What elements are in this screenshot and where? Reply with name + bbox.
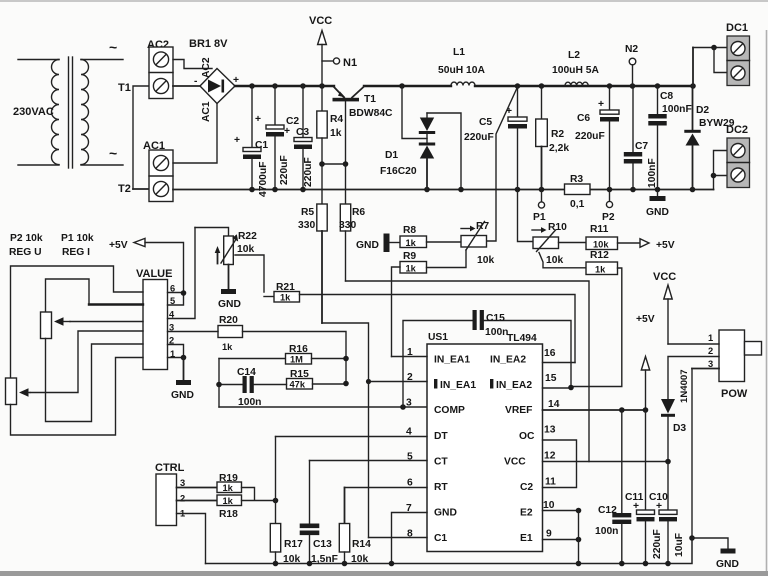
junction dot COMP net <box>400 404 406 410</box>
connector DC1 terminal block <box>727 36 750 86</box>
resistor R9 <box>400 262 427 274</box>
svg-text:C7: C7 <box>635 141 648 152</box>
svg-text:C13: C13 <box>313 539 332 550</box>
pin 7 wire GND <box>392 513 428 564</box>
svg-text:CT: CT <box>434 457 448 468</box>
node N1 <box>322 57 357 69</box>
svg-text:R8: R8 <box>403 225 416 236</box>
svg-text:R15: R15 <box>290 369 309 380</box>
svg-text:VCC: VCC <box>309 15 332 27</box>
svg-text:R10: R10 <box>548 222 567 233</box>
svg-text:C8: C8 <box>660 91 673 102</box>
wire C5 gnd to R10 <box>518 190 534 242</box>
svg-text:AC1: AC1 <box>201 101 212 122</box>
svg-text:10k: 10k <box>351 554 368 565</box>
svg-text:+: + <box>234 135 240 146</box>
svg-text:+5V: +5V <box>656 240 675 251</box>
svg-text:+5V: +5V <box>109 240 128 251</box>
junction dot pin7 rail <box>389 561 395 567</box>
ground symbol bottom right <box>692 538 739 570</box>
svg-text:13: 13 <box>544 425 556 436</box>
svg-text:100nF: 100nF <box>647 158 658 188</box>
junction dot C10 rail <box>665 561 671 567</box>
pin name inv IN_EA1 <box>434 379 476 391</box>
svg-text:1k: 1k <box>223 496 234 506</box>
junction dot POW gnd <box>689 535 695 541</box>
svg-text:IN_EA1: IN_EA1 <box>440 380 476 391</box>
svg-text:220uF: 220uF <box>575 131 605 142</box>
potentiometer P2 lower <box>6 378 31 405</box>
svg-text:GND: GND <box>646 207 669 218</box>
pin 16 wire <box>543 362 576 364</box>
wire R22 wiper to R21 <box>235 255 264 292</box>
pin 2 of CTRL <box>177 494 218 504</box>
svg-text:COMP: COMP <box>434 405 465 416</box>
junction dots on ground rail <box>249 187 695 193</box>
junction dot R14 rail <box>342 561 348 567</box>
wire E1 E2 to ground rail <box>578 511 580 564</box>
power +5V arrow left <box>109 238 184 292</box>
svg-text:3: 3 <box>406 398 412 409</box>
wire R5 to pin2 pin8 chain <box>322 323 369 538</box>
potentiometer R22 <box>195 228 238 265</box>
capacitor C5 <box>508 86 527 190</box>
svg-text:3: 3 <box>180 478 185 488</box>
potentiometer P1 upper <box>41 312 144 339</box>
svg-text:16: 16 <box>544 348 556 359</box>
svg-text:1k: 1k <box>406 264 417 274</box>
svg-text:1: 1 <box>170 349 175 359</box>
wire R8 to R7 <box>427 241 462 243</box>
junction dot VREF +5V <box>643 407 649 413</box>
transformer TR secondary winding <box>81 60 123 166</box>
svg-text:DC1: DC1 <box>726 22 748 34</box>
svg-text:POW: POW <box>721 388 748 400</box>
svg-text:R4: R4 <box>330 114 343 125</box>
svg-text:10k: 10k <box>237 244 254 255</box>
pin name inv IN_EA2 <box>490 379 532 391</box>
wire ground rail bottom <box>206 538 693 564</box>
svg-text:CTRL: CTRL <box>155 462 185 474</box>
connector CTRL body <box>156 474 177 526</box>
pin 6 of VALUE <box>168 284 187 306</box>
capacitor C14 <box>219 376 287 393</box>
svg-text:9: 9 <box>546 529 552 540</box>
ground symbol below VALUE <box>171 358 194 402</box>
wire AC1 upper screw to bridge bottom <box>173 104 217 163</box>
svg-text:1M: 1M <box>290 355 303 365</box>
svg-text:GND: GND <box>218 299 241 310</box>
svg-text:+: + <box>255 114 261 125</box>
svg-text:R18: R18 <box>219 509 238 520</box>
junction dot C12 rail <box>619 561 625 567</box>
svg-text:R7: R7 <box>476 221 489 232</box>
svg-text:100nF: 100nF <box>662 104 692 115</box>
diode D2 <box>684 86 700 190</box>
svg-text:C1: C1 <box>434 533 447 544</box>
wire R6 chain down to VCC wire <box>346 281 590 462</box>
svg-text:3: 3 <box>708 359 713 369</box>
svg-text:R11: R11 <box>590 224 609 235</box>
svg-text:1k: 1k <box>330 128 342 139</box>
svg-text:0,1: 0,1 <box>570 199 585 210</box>
wire value pin6 to pot P2 top <box>11 266 144 378</box>
pin 5 wire CT <box>310 460 428 462</box>
wire switch node to D1 <box>402 86 427 139</box>
wire main DC bus from bridge to T1 <box>235 85 334 87</box>
svg-text:R14: R14 <box>352 539 371 550</box>
svg-text:1N4007: 1N4007 <box>679 369 690 403</box>
svg-text:12: 12 <box>544 451 556 462</box>
connector POW body <box>719 330 762 382</box>
wire base junction <box>322 163 346 165</box>
svg-text:N1: N1 <box>343 57 357 69</box>
wire value pin5 to pot P1 top <box>46 279 144 312</box>
wire T2 to AC1 block <box>133 188 149 190</box>
wire COMP net <box>219 406 427 408</box>
svg-text:1k: 1k <box>223 483 234 493</box>
svg-text:C6: C6 <box>577 113 590 124</box>
svg-text:GND: GND <box>171 390 194 401</box>
svg-text:R20: R20 <box>219 315 238 326</box>
diode D1 dual common cathode <box>419 113 435 190</box>
wire main DC bus from T1 to output corner <box>364 85 693 87</box>
svg-text:P1: P1 <box>533 212 546 223</box>
power +5V arrow right of R11 <box>618 239 675 251</box>
capacitor C2 <box>266 86 284 190</box>
wire AC2 lower screw to bridge left <box>173 85 200 87</box>
svg-text:TL494: TL494 <box>507 333 537 344</box>
junction dot R15 right <box>343 381 349 387</box>
svg-text:R17: R17 <box>284 539 303 550</box>
wire value pin1 to pot P2 bottom <box>11 358 144 436</box>
pin 1 wire <box>392 356 428 358</box>
resistor R14 <box>339 488 349 564</box>
rectifier BR1 bridge <box>200 69 235 104</box>
svg-text:D3: D3 <box>673 423 686 434</box>
pin 14 wire VREF <box>543 409 646 411</box>
ground symbol below R22 <box>218 265 241 311</box>
svg-text:~: ~ <box>109 145 117 161</box>
wire R9 right to R7 wiper <box>427 250 467 268</box>
capacitor C3 <box>294 86 312 190</box>
svg-text:C12: C12 <box>598 505 617 516</box>
pin 4 of VALUE <box>168 228 196 320</box>
junction dot R17 rail <box>273 561 279 567</box>
svg-text:-: - <box>194 76 198 87</box>
resistor R5 <box>317 164 327 323</box>
svg-text:R21: R21 <box>276 282 295 293</box>
junction dot R4 base <box>319 161 325 167</box>
svg-text:RT: RT <box>434 482 448 493</box>
pin 6 wire RT <box>345 487 428 489</box>
svg-text:IN_EA2: IN_EA2 <box>490 355 526 366</box>
svg-text:+: + <box>233 75 239 86</box>
svg-text:E1: E1 <box>520 533 533 544</box>
svg-text:2,2k: 2,2k <box>549 143 569 154</box>
wire R21 to pin16 <box>300 295 576 363</box>
svg-text:AC2: AC2 <box>201 57 212 78</box>
svg-text:1k: 1k <box>595 265 606 275</box>
svg-text:+: + <box>656 501 662 512</box>
resistor R2 <box>536 86 548 190</box>
svg-text:T1: T1 <box>118 82 131 94</box>
svg-text:1k: 1k <box>406 238 417 248</box>
resistor R17 <box>270 437 280 564</box>
wire output plus to DC1 <box>693 45 727 86</box>
pin 4 wire DT <box>276 436 428 438</box>
resistor R4 <box>317 86 327 164</box>
svg-text:330: 330 <box>339 220 356 231</box>
resistor R8 <box>400 236 427 248</box>
svg-text:10k: 10k <box>477 255 494 266</box>
resistor R20 <box>218 326 243 353</box>
pin 1 of POW <box>668 333 719 344</box>
svg-text:L1: L1 <box>453 47 465 58</box>
capacitor C1 <box>243 86 261 190</box>
node P1 <box>533 190 546 224</box>
svg-text:R12: R12 <box>590 250 609 261</box>
svg-text:10k: 10k <box>283 554 300 565</box>
svg-text:1k: 1k <box>280 293 291 303</box>
svg-text:US1: US1 <box>428 332 448 343</box>
resistor R12 <box>539 253 618 275</box>
svg-text:R2: R2 <box>551 129 564 140</box>
resistor R6 <box>340 164 350 281</box>
wire R19 R18 join <box>242 488 276 501</box>
connector AC2 terminal block <box>149 47 173 99</box>
resistor R15 <box>287 379 347 390</box>
svg-text:IN_EA1: IN_EA1 <box>434 355 470 366</box>
junction dot C14 left <box>216 382 222 388</box>
svg-text:330: 330 <box>298 220 315 231</box>
wire D1 top loop <box>427 113 461 190</box>
resistor R3 shunt <box>565 184 591 195</box>
pin 2 wire <box>369 381 428 383</box>
svg-text:14: 14 <box>548 399 560 410</box>
border bottom band <box>0 571 768 576</box>
svg-text:2: 2 <box>708 346 713 356</box>
svg-text:100n: 100n <box>485 327 508 338</box>
IC US1 body <box>427 344 543 552</box>
svg-text:T2: T2 <box>118 183 131 195</box>
svg-text:10k: 10k <box>593 240 609 250</box>
resistor R21 <box>264 292 300 303</box>
svg-text:11: 11 <box>545 477 556 488</box>
capacitor C15 <box>403 310 571 407</box>
svg-text:BDW84C: BDW84C <box>349 108 393 119</box>
power VCC arrow right <box>653 271 676 344</box>
capacitor C12 <box>612 410 631 564</box>
pin 3 of POW <box>692 359 719 538</box>
junction dot T1 base <box>343 161 349 167</box>
svg-text:D2: D2 <box>696 105 709 116</box>
capacitor C7 <box>624 86 642 190</box>
svg-text:P2 10k: P2 10k <box>10 233 43 244</box>
ground flag at R8 <box>356 234 400 253</box>
junction dot pin2 <box>366 379 371 384</box>
svg-text:GND: GND <box>434 508 457 519</box>
svg-text:D1: D1 <box>385 150 398 161</box>
resistor R18 <box>217 495 242 506</box>
wire output minus to DC2 <box>711 151 727 190</box>
wire ground rail top <box>173 189 714 191</box>
svg-text:F16C20: F16C20 <box>380 166 417 177</box>
svg-text:50uH 10A: 50uH 10A <box>438 65 485 76</box>
transformer TR primary winding <box>18 60 59 166</box>
pin 10 wire E2 <box>543 510 579 512</box>
svg-text:DC2: DC2 <box>726 124 748 136</box>
svg-text:L2: L2 <box>568 50 580 61</box>
transistor T1 <box>333 87 365 165</box>
pin 12 wire VCC <box>543 461 669 463</box>
capacitor C8 <box>648 86 666 190</box>
svg-text:REG U: REG U <box>9 247 42 258</box>
svg-text:10k: 10k <box>546 255 563 266</box>
svg-text:2: 2 <box>180 494 185 504</box>
svg-text:VCC: VCC <box>653 271 676 283</box>
junction dot R16 right <box>343 356 349 362</box>
svg-text:10uF: 10uF <box>674 533 685 557</box>
svg-text:N2: N2 <box>625 44 638 55</box>
svg-text:1: 1 <box>708 333 713 343</box>
junction dot R18 right <box>273 498 279 504</box>
svg-text:230VAC: 230VAC <box>13 106 54 118</box>
svg-text:+5V: +5V <box>636 314 655 325</box>
pin 3 of VALUE <box>168 323 219 333</box>
junction dot pin9 <box>576 537 582 543</box>
svg-text:R19: R19 <box>219 473 238 484</box>
diode D3 <box>661 399 675 462</box>
svg-text:1,5nF: 1,5nF <box>311 554 338 565</box>
connector DC2 terminal block <box>727 138 750 188</box>
svg-text:C2: C2 <box>520 482 533 493</box>
svg-text:~: ~ <box>109 39 117 55</box>
svg-text:GND: GND <box>716 559 739 570</box>
svg-text:IN_EA2: IN_EA2 <box>496 380 532 391</box>
svg-text:R3: R3 <box>570 174 583 185</box>
svg-text:VCC: VCC <box>504 457 526 468</box>
junction dot C13 rail <box>307 561 313 567</box>
potentiometer R7 <box>461 222 487 251</box>
wire R9 left down chain <box>392 267 401 357</box>
pin 2 of POW <box>668 346 719 399</box>
svg-text:4700uF: 4700uF <box>258 162 269 198</box>
svg-text:C3: C3 <box>296 127 309 138</box>
pin 1 of VALUE <box>170 349 186 360</box>
capacitor C13 <box>300 461 320 564</box>
pin 9 wire E1 <box>543 539 579 541</box>
svg-text:VREF: VREF <box>505 405 532 416</box>
wire T1-T2 bracket <box>133 86 149 189</box>
svg-text:100n: 100n <box>595 526 618 537</box>
pin 15 wire <box>543 387 572 389</box>
svg-text:T1: T1 <box>364 94 376 105</box>
svg-text:P2: P2 <box>602 212 615 223</box>
resistor R11 <box>559 237 618 250</box>
svg-text:220uF: 220uF <box>464 132 494 143</box>
ground symbol below C8 <box>646 190 669 219</box>
border right edge <box>766 30 768 572</box>
svg-text:R22: R22 <box>238 231 257 242</box>
svg-text:OC: OC <box>519 431 535 442</box>
svg-text:C14: C14 <box>237 367 256 378</box>
wire value pin3 to pot P2 wiper <box>30 331 143 393</box>
svg-text:220uF: 220uF <box>303 157 314 187</box>
pin 1 of CTRL <box>177 509 206 564</box>
svg-text:R9: R9 <box>403 251 416 262</box>
resistor R16 <box>219 354 346 365</box>
pin 3 of CTRL <box>177 478 218 488</box>
junction dot VREF C12 <box>619 407 625 413</box>
pin 2 of VALUE <box>168 336 184 358</box>
svg-text:+: + <box>633 501 639 512</box>
junction dot pin15 <box>568 385 574 391</box>
capacitor C6 <box>600 86 619 190</box>
svg-text:R16: R16 <box>289 344 308 355</box>
svg-text:47k: 47k <box>290 380 306 390</box>
pin 13 wire OC loop to pin 11 <box>543 440 577 488</box>
svg-text:R5: R5 <box>301 207 314 218</box>
svg-text:P1 10k: P1 10k <box>61 233 94 244</box>
potentiometer R10 <box>532 227 559 251</box>
connector AC1 terminal block <box>149 150 173 202</box>
svg-text:E2: E2 <box>520 508 533 519</box>
capacitor C10 <box>659 462 677 564</box>
resistor R19 <box>217 482 242 493</box>
junction dot pin10 <box>576 508 582 514</box>
svg-text:220uF: 220uF <box>652 529 663 559</box>
wire value pin2 to pot P1 bottom <box>46 339 144 422</box>
svg-text:100uH 5A: 100uH 5A <box>552 65 599 76</box>
svg-text:C1: C1 <box>255 140 268 151</box>
svg-text:220uF: 220uF <box>279 155 290 185</box>
wire R12 to pin15 <box>571 268 622 387</box>
svg-text:GND: GND <box>356 240 379 251</box>
power VCC top arrow <box>309 15 332 86</box>
svg-text:REG I: REG I <box>62 247 90 258</box>
capacitor C11 <box>637 410 655 564</box>
node N2 <box>625 44 638 86</box>
junction dot C11 rail <box>643 561 649 567</box>
wire C14 R16 left chain <box>218 359 220 408</box>
junction dot VCC C10 <box>665 459 671 465</box>
wire R20 to R15 R16 <box>243 332 347 384</box>
svg-text:C15: C15 <box>486 313 505 324</box>
svg-text:5: 5 <box>170 296 175 306</box>
svg-text:+: + <box>284 126 290 137</box>
svg-text:15: 15 <box>545 373 557 384</box>
inductor L2 <box>565 82 588 85</box>
svg-text:VALUE: VALUE <box>136 268 172 280</box>
svg-text:DT: DT <box>434 431 448 442</box>
connector VALUE body <box>143 280 168 370</box>
node P2 <box>602 190 615 224</box>
svg-text:BR1 8V: BR1 8V <box>189 38 228 50</box>
junction dot E chain on rail <box>576 561 582 567</box>
junction dots on bus <box>249 83 696 89</box>
transformer TR core <box>69 57 73 168</box>
svg-text:R6: R6 <box>352 207 365 218</box>
power +5V arrow mid <box>636 314 655 410</box>
wire C5 node to R7 pot <box>487 88 517 241</box>
svg-text:+: + <box>598 99 604 110</box>
svg-text:C5: C5 <box>479 117 492 128</box>
border top edge <box>0 0 768 2</box>
wire AC2 upper screw to bridge top <box>173 60 212 69</box>
svg-text:10: 10 <box>543 500 555 511</box>
inductor L1 <box>451 82 475 85</box>
